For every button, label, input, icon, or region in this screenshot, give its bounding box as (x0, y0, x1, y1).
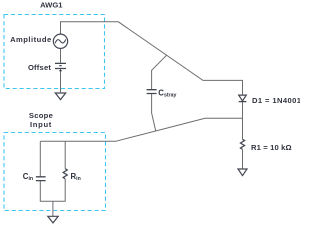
svg-text:Rin: Rin (71, 172, 81, 182)
svg-text:Cin: Cin (23, 172, 33, 182)
svg-text:Cstray: Cstray (158, 88, 176, 98)
svg-text:AWG1: AWG1 (40, 1, 63, 10)
svg-text:Scope: Scope (29, 111, 53, 120)
svg-text:R1 = 10 kΩ: R1 = 10 kΩ (251, 143, 292, 152)
svg-text:Amplitude: Amplitude (10, 35, 52, 44)
svg-text:Offset: Offset (28, 63, 51, 72)
svg-text:D1 = 1N4001: D1 = 1N4001 (252, 96, 300, 105)
svg-text:Input: Input (30, 120, 52, 129)
